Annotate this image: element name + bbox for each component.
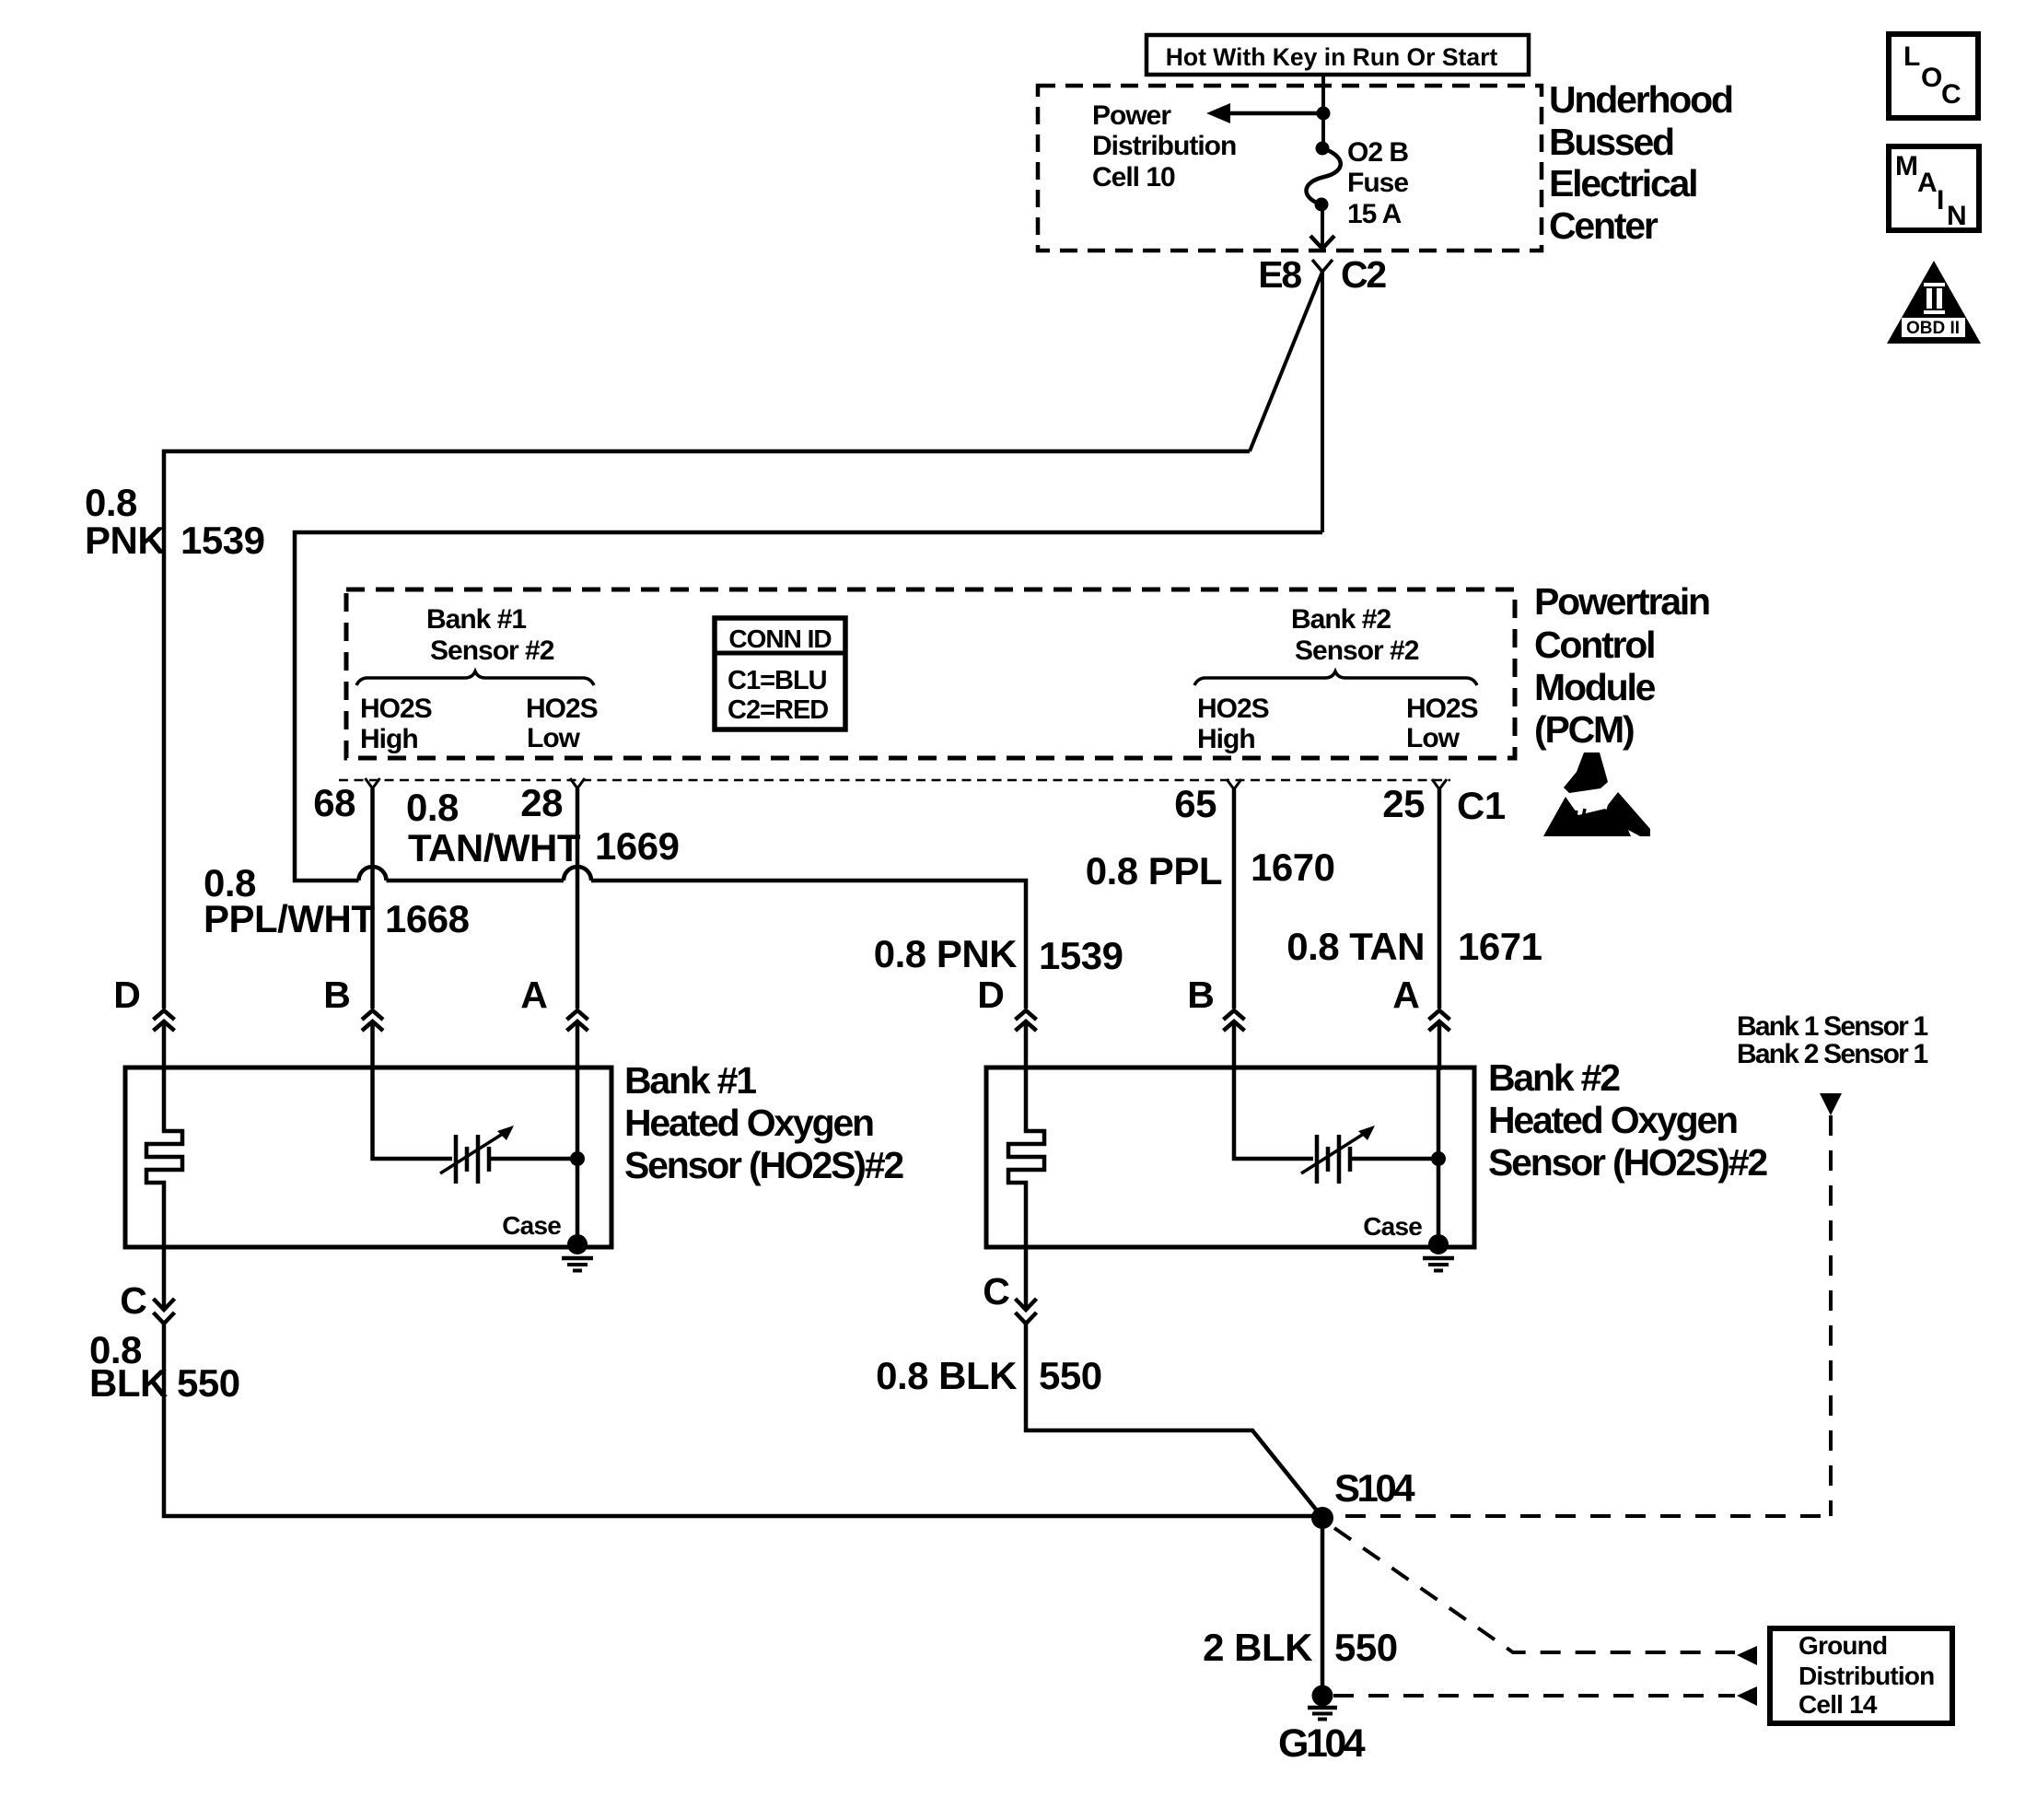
svg-text:High: High — [1197, 724, 1255, 754]
svg-text:Powertrain: Powertrain — [1534, 580, 1709, 623]
wire hop over pin 68 wire — [359, 867, 387, 881]
svg-text:G104: G104 — [1278, 1721, 1366, 1766]
label HO2S High (bank1) — [360, 694, 432, 754]
svg-text:1539: 1539 — [1039, 934, 1123, 977]
splice node S104 — [1311, 1507, 1333, 1529]
svg-text:E8: E8 — [1258, 253, 1301, 296]
wire thermistor to A bank1 — [489, 1157, 577, 1161]
svg-text:O2 B: O2 B — [1347, 137, 1408, 168]
label Power Distribution Cell 10 — [1092, 100, 1236, 192]
connector E8/C2 fork symbol — [1312, 260, 1333, 272]
label 0.8 BLK 550 (bank2) — [876, 1354, 1101, 1397]
OBD II triangle symbol — [1887, 261, 1981, 344]
LOC reference box — [1889, 34, 1978, 118]
svg-text:PNK: PNK — [85, 519, 165, 562]
node junction on A wire bank1 — [570, 1151, 585, 1166]
ESD sensitive symbol — [1543, 752, 1650, 836]
svg-text:Low: Low — [1406, 723, 1461, 753]
PCM connector C1 dashed edge — [339, 779, 1450, 782]
svg-text:0.8 PNK: 0.8 PNK — [874, 932, 1017, 975]
svg-text:550: 550 — [1039, 1354, 1102, 1397]
Powertrain Control Module dashed box — [346, 589, 1515, 758]
svg-text:Electrical: Electrical — [1549, 162, 1696, 204]
label 0.8 BLK 550 (bank1) — [89, 1328, 240, 1405]
pin 65 fork — [1227, 779, 1241, 789]
svg-text:1671: 1671 — [1458, 925, 1542, 968]
svg-text:A: A — [1917, 168, 1937, 198]
svg-text:S104: S104 — [1334, 1466, 1415, 1510]
svg-text:Case: Case — [1363, 1212, 1422, 1241]
label Bank #1 Sensor #2 — [426, 604, 554, 666]
svg-text:Bank 1 Sensor 1: Bank 1 Sensor 1 — [1737, 1011, 1928, 1042]
svg-text:Sensor #2: Sensor #2 — [430, 636, 554, 666]
inline connector chevrons A bank2 — [1429, 1010, 1450, 1031]
wire inner PNK 1539 run from C2 to Bank2 D — [295, 532, 1322, 881]
svg-text:B: B — [323, 974, 349, 1016]
svg-text:TAN/WHT: TAN/WHT — [408, 826, 581, 869]
svg-text:D: D — [977, 974, 1003, 1016]
svg-text:Heated Oxygen: Heated Oxygen — [624, 1102, 873, 1144]
dashed wire to S104 — [1345, 1514, 1831, 1518]
pin 28 fork — [570, 778, 585, 788]
svg-text:0.8 TAN: 0.8 TAN — [1286, 925, 1425, 968]
wire A bank2 down to case — [1437, 1067, 1441, 1244]
svg-text:HO2S: HO2S — [360, 694, 432, 724]
inline connector chevrons C bank2 (down) — [1016, 1299, 1037, 1324]
svg-text:HO2S: HO2S — [526, 694, 598, 724]
label Underhood Bussed Electrical Center — [1549, 78, 1732, 247]
svg-text:I: I — [1937, 185, 1943, 216]
svg-text:Case: Case — [502, 1211, 561, 1240]
svg-text:Cell 10: Cell 10 — [1092, 162, 1175, 192]
wire B bank1 into box — [373, 1067, 453, 1159]
svg-text:Bank #1: Bank #1 — [426, 604, 526, 635]
wire hop over pin 28 wire — [564, 867, 591, 881]
svg-text:Ground: Ground — [1798, 1631, 1887, 1660]
svg-text:OBD II: OBD II — [1906, 319, 1960, 338]
label Powertrain Control Module (PCM) — [1534, 580, 1709, 751]
Bank #2 HO2S box — [986, 1067, 1474, 1247]
svg-text:BLK: BLK — [89, 1361, 168, 1405]
node junction on A wire bank2 — [1431, 1151, 1446, 1166]
fuse O2 B 15 A — [1306, 142, 1340, 212]
svg-text:1668: 1668 — [385, 897, 470, 940]
svg-text:C2: C2 — [1341, 253, 1386, 296]
CONN ID table — [715, 618, 845, 729]
wire junction to fuse — [1321, 113, 1325, 148]
brace Bank #2 Sensor #2 — [1194, 671, 1477, 685]
ground symbol G104 — [1308, 1708, 1337, 1720]
MAIN reference box — [1889, 146, 1979, 231]
svg-text:Cell 14: Cell 14 — [1798, 1690, 1878, 1719]
label 0.8 PPL/WHT 1668 — [204, 861, 470, 940]
wire pin 68 down to Bank1 B — [370, 788, 375, 1009]
label 0.8 PPL 1670 — [1086, 846, 1335, 892]
svg-text:O: O — [1921, 63, 1942, 93]
label 0.8 TAN 1671 — [1286, 925, 1542, 968]
pin 25 fork — [1432, 779, 1447, 789]
svg-text:Bank #2: Bank #2 — [1488, 1056, 1620, 1099]
Bank #1 HO2S box — [125, 1067, 611, 1247]
wire continue to Bank2 D drop — [591, 881, 1026, 1009]
Ground Distribution Cell 14 box — [1770, 1628, 1952, 1723]
svg-text:550: 550 — [1334, 1626, 1398, 1669]
label Bank #2 Sensor #2 — [1291, 604, 1419, 666]
svg-text:0.8 BLK: 0.8 BLK — [876, 1354, 1017, 1397]
dashed wire S104 diagonal to ground distribution — [1334, 1528, 1735, 1652]
svg-text:68: 68 — [313, 781, 355, 824]
svg-text:C1=BLU: C1=BLU — [727, 666, 827, 695]
svg-text:C: C — [1941, 79, 1961, 110]
label HO2S High (bank2) — [1197, 694, 1269, 754]
wire C2 down — [1321, 272, 1324, 532]
svg-text:15 A: 15 A — [1347, 199, 1402, 229]
svg-text:CONN ID: CONN ID — [728, 624, 832, 653]
svg-text:65: 65 — [1174, 782, 1216, 825]
svg-text:28: 28 — [520, 781, 563, 824]
heater element bank1 — [146, 1067, 182, 1247]
svg-text:550: 550 — [177, 1361, 240, 1405]
svg-text:0.8: 0.8 — [406, 786, 459, 829]
svg-text:C: C — [120, 1279, 146, 1322]
svg-text:HO2S: HO2S — [1197, 694, 1269, 724]
svg-text:HO2S: HO2S — [1406, 694, 1478, 724]
svg-text:A: A — [520, 974, 547, 1016]
ground symbol bank1 case — [562, 1258, 593, 1271]
wire E8 diagonal — [1250, 272, 1322, 451]
svg-text:Bank #2: Bank #2 — [1291, 604, 1391, 635]
wire continue — [387, 879, 565, 883]
svg-text:Distribution: Distribution — [1092, 131, 1236, 161]
label 0.8 PNK 1539 (bank2 D) — [874, 932, 1123, 977]
wire A bank1 down to case — [576, 1067, 580, 1244]
wire BLK 550 bank2 down to S104 — [1026, 1324, 1321, 1515]
svg-text:1669: 1669 — [595, 824, 679, 868]
arrowhead to ground distribution (upper) — [1737, 1646, 1757, 1665]
svg-text:Sensor (HO2S)#2: Sensor (HO2S)#2 — [624, 1144, 903, 1186]
case ground node bank2 — [1428, 1234, 1449, 1254]
wire pin 25 down to Bank2 A — [1438, 789, 1442, 1009]
wire bank1 C out of box — [162, 1247, 167, 1310]
svg-text:Bank 2 Sensor 1: Bank 2 Sensor 1 — [1737, 1039, 1928, 1069]
svg-text:High: High — [360, 724, 418, 754]
svg-text:1539: 1539 — [180, 519, 264, 562]
wire pin 65 down to Bank2 B — [1232, 789, 1237, 1009]
wire thermistor to A bank2 — [1350, 1157, 1438, 1161]
wire B bank2 into box — [1234, 1067, 1313, 1159]
hot-feed label box "Hot With Key in Run Or Start" — [1147, 35, 1529, 75]
svg-text:(PCM): (PCM) — [1534, 708, 1634, 751]
label 0.8 TAN/WHT 1669 — [406, 786, 679, 869]
dashed wire from triangle down — [1829, 1115, 1833, 1516]
svg-text:M: M — [1895, 151, 1917, 181]
label Bank #2 Heated Oxygen Sensor (HO2S)#2 — [1488, 1056, 1767, 1184]
wire arrow to Power Distribution — [1206, 103, 1323, 123]
ground node G104 — [1312, 1686, 1333, 1707]
svg-text:0.8 PPL: 0.8 PPL — [1086, 849, 1222, 892]
label 0.8 PNK 1539 — [85, 481, 264, 562]
node junction at power feed — [1317, 107, 1331, 121]
svg-text:1670: 1670 — [1251, 846, 1334, 889]
wire pin 28 down to Bank1 A — [576, 788, 580, 1009]
arrowhead to ground distribution (lower) — [1737, 1686, 1757, 1706]
wire bank2 C out of box — [1024, 1247, 1029, 1310]
pin 68 fork — [366, 778, 380, 788]
svg-text:Module: Module — [1534, 666, 1656, 708]
svg-text:Bank #1: Bank #1 — [624, 1059, 756, 1102]
thermistor (variable sense element) bank1 — [440, 1126, 514, 1184]
svg-text:B: B — [1187, 974, 1213, 1016]
ground symbol bank2 case — [1423, 1258, 1454, 1271]
svg-text:Sensor (HO2S)#2: Sensor (HO2S)#2 — [1488, 1141, 1767, 1184]
svg-text:25: 25 — [1382, 782, 1425, 825]
svg-text:Heated Oxygen: Heated Oxygen — [1488, 1099, 1737, 1141]
svg-text:Low: Low — [527, 723, 581, 753]
inline connector chevrons A bank1 — [567, 1010, 588, 1031]
svg-text:Fuse: Fuse — [1347, 168, 1408, 198]
svg-text:N: N — [1947, 201, 1966, 231]
wire fuse to connector with arrowhead — [1310, 204, 1334, 249]
svg-text:Center: Center — [1549, 204, 1659, 247]
svg-text:D: D — [113, 974, 139, 1016]
wire stubs from chevrons into boxes — [164, 1021, 1439, 1070]
label O2 B Fuse 15 A — [1347, 137, 1408, 229]
inline connector chevrons B bank1 — [362, 1010, 383, 1031]
inline connector chevrons C bank1 (down) — [154, 1299, 175, 1324]
svg-text:Bussed: Bussed — [1549, 121, 1673, 163]
svg-text:A: A — [1392, 974, 1419, 1016]
brace Bank #1 Sensor #2 — [356, 671, 594, 685]
label 2 BLK 550 — [1203, 1626, 1397, 1669]
inline connector chevrons D bank2 — [1016, 1010, 1037, 1031]
svg-text:Underhood: Underhood — [1549, 78, 1732, 121]
wire BLK 550 bank1 down and across to S104 — [164, 1324, 1315, 1516]
wire 2 BLK 550 S104 to G104 — [1321, 1518, 1325, 1687]
svg-text:Sensor #2: Sensor #2 — [1295, 636, 1419, 666]
svg-text:PPL/WHT: PPL/WHT — [204, 897, 375, 940]
dashed wire G104 to ground distribution — [1333, 1694, 1735, 1697]
svg-text:2 BLK: 2 BLK — [1203, 1626, 1312, 1669]
wire 0.8 PNK 1539 horizontal run to left — [164, 451, 1250, 1009]
svg-text:C: C — [983, 1270, 1009, 1312]
inline connector chevrons D bank1 — [154, 1010, 175, 1031]
svg-text:C1: C1 — [1457, 784, 1506, 827]
svg-text:L: L — [1903, 41, 1920, 72]
Underhood Bussed Electrical Center dashed box — [1038, 86, 1542, 251]
case ground node bank1 — [567, 1234, 588, 1254]
label HO2S Low (bank2) — [1406, 694, 1478, 753]
heater element bank2 — [1008, 1067, 1044, 1247]
label Bank 1 Sensor 1 / Bank 2 Sensor 1 — [1737, 1011, 1928, 1069]
off-page triangle (bank sensors) — [1820, 1093, 1842, 1115]
inline connector chevrons B bank2 — [1224, 1010, 1245, 1031]
svg-text:0.8: 0.8 — [85, 481, 137, 524]
wire from hot box into UBEC — [1321, 75, 1325, 113]
svg-text:Control: Control — [1534, 624, 1654, 666]
svg-text:C2=RED: C2=RED — [727, 695, 828, 725]
svg-text:Power: Power — [1092, 100, 1171, 131]
label Bank #1 Heated Oxygen Sensor (HO2S)#2 — [624, 1059, 903, 1186]
label HO2S Low (bank1) — [526, 694, 598, 753]
svg-text:Hot With Key in Run Or Start: Hot With Key in Run Or Start — [1166, 43, 1498, 71]
svg-text:Distribution: Distribution — [1798, 1662, 1935, 1690]
thermistor (variable sense element) bank2 — [1301, 1126, 1375, 1184]
